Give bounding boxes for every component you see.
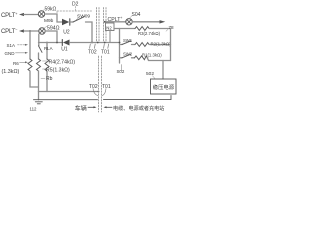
row1 wire [114,28,135,30]
wire right CPLT [105,21,126,23]
svg-text:CPLT+: CPLT+ [1,11,18,19]
svg-text:U1: U1 [61,47,68,53]
network left bus [119,29,121,64]
dashed bracket line [57,10,93,12]
svg-text:SW09: SW09 [77,14,90,20]
svg-text:Rb: Rb [46,76,53,82]
diode U1 (pointing left) [63,40,70,46]
annotation line right with end tick [104,96,172,100]
switch S09 [70,21,73,23]
ground stem [38,92,40,100]
branch B3: wire from row D down [46,42,48,44]
svg-text:RLA: RLA [44,46,53,51]
svg-text:R4(2.74kΩ): R4(2.74kΩ) [49,60,76,66]
svg-text:稳压电源: 稳压电源 [153,83,175,91]
svg-text:(1.3kΩ): (1.3kΩ) [2,69,20,75]
meter M3 (circle-X) [126,19,132,25]
wire CPLT+ arrowhead [19,13,24,16]
value label 594Ohm [45,26,47,28]
svg-text:N2: N2 [106,26,112,31]
resistor R2 [132,44,136,46]
bottom bus to ground [39,91,99,93]
switch SW1 [120,44,123,46]
svg-text:CPLT−: CPLT− [1,27,18,35]
svg-text:T02: T02 [88,50,97,56]
wire CPLT+ to meter [24,14,38,16]
terminal dashed pair (lower) [98,56,100,112]
junction dot at branch B1 [29,30,31,32]
branch B1: wire from CPLT- down [29,31,31,59]
wire from M2 with bend down to row D [45,31,57,43]
wire CPLT- to meter [24,30,39,32]
network right bus to supply [170,29,172,61]
meter M2 (circle-X) [39,28,45,34]
diode U2 [62,19,69,25]
switch SW2 [120,57,123,59]
label S02 with leader [121,65,123,71]
svg-text:R5(1.3kΩ): R5(1.3kΩ) [46,67,70,73]
wire switch to corner, down to lower row [86,22,93,43]
svg-text:R1(1.3kΩ): R1(1.3kΩ) [142,53,162,58]
svg-text:R6: R6 [13,61,19,66]
label R4 value [43,60,48,62]
label R5 value [43,68,48,70]
wire row3 down to supply [162,61,164,80]
svg-text:T01: T01 [102,84,111,90]
svg-text:T01: T01 [101,50,110,56]
switch S1A blade [39,46,43,53]
svg-text:S1A: S1A [7,43,16,48]
wire CPLT- arrowhead [19,29,24,32]
terminal T01 dashed pair (upper) [103,8,105,43]
svg-text:M9b: M9b [44,18,54,24]
svg-text:SW2: SW2 [123,51,133,56]
svg-text:R3(2.74kΩ): R3(2.74kΩ) [138,31,161,36]
svg-text:U2: U2 [63,30,70,36]
resistor R6 [28,59,32,71]
branch B2: wire from meter M2 down [38,34,40,46]
svg-text:电缆、电源或者充电站: 电缆、电源或者充电站 [113,104,164,112]
row D wire right through terminals [70,42,120,44]
svg-text:GND: GND [5,51,16,56]
svg-text:R2(1.3kΩ): R2(1.3kΩ) [151,41,172,46]
svg-text:S04: S04 [132,12,141,18]
terminal T02 dashed pair (upper) [96,8,98,43]
svg-text:车辆: 车辆 [75,104,87,112]
label Rb [41,78,45,80]
resistor R5 [45,59,49,71]
resistor R1 [132,57,135,59]
resistor R3 [135,27,149,31]
svg-text:112: 112 [30,107,38,112]
box N2 [106,23,115,31]
value label 59kOhm [42,10,44,12]
svg-text:SW1: SW1 [123,38,133,43]
annotation line left [34,99,98,101]
svg-text:59kΩ: 59kΩ [45,7,57,13]
resistor R4 [37,59,41,71]
svg-text:78: 78 [169,25,175,30]
wire with right arrow [132,21,160,23]
power supply box [151,79,177,94]
arrow to boundary (right-pointing) [88,106,94,108]
wire from M1 with bend down to diode row [45,14,62,22]
row D wire left [39,42,63,44]
ground [35,101,42,103]
svg-text:S02: S02 [117,69,125,74]
arrow from boundary (left-pointing) [107,106,113,108]
meter M1 (circle-X) [38,11,44,17]
